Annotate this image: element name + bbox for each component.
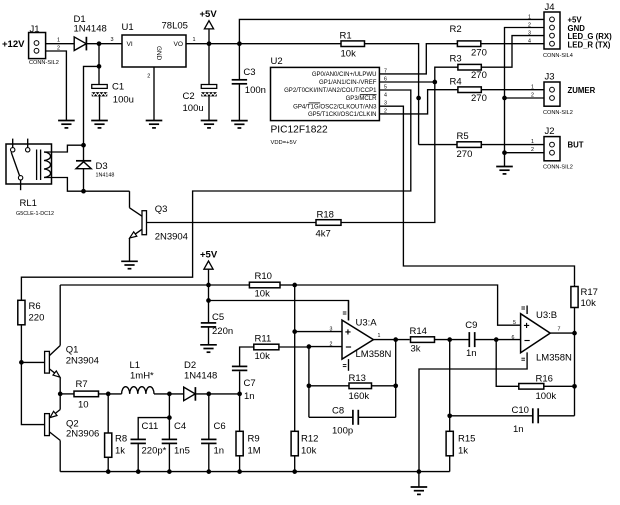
svg-text:3k: 3k — [411, 344, 421, 355]
wire output B down to R16 — [574, 333, 576, 416]
ground at C5 — [200, 344, 217, 346]
svg-text:10k: 10k — [255, 351, 271, 362]
svg-text:R3: R3 — [450, 54, 462, 65]
wire R13 right lead — [372, 385, 396, 387]
wire minus A to R13 — [308, 347, 310, 418]
node J3 pin2 on GND bus — [502, 96, 507, 101]
svg-text:R15: R15 — [458, 434, 475, 445]
svg-text:C9: C9 — [465, 320, 477, 331]
svg-text:C8: C8 — [332, 406, 344, 417]
svg-text:220: 220 — [29, 313, 45, 324]
node MCLR pin4 junction — [416, 96, 421, 101]
node minus input A junction — [307, 344, 312, 349]
wire GP1 pin6 stub — [379, 81, 434, 83]
svg-text:CONN-SIL2: CONN-SIL2 — [543, 165, 573, 171]
svg-text:−: − — [345, 341, 351, 353]
svg-text:C1: C1 — [112, 82, 124, 93]
ground at C1 — [91, 120, 108, 122]
power stub top U3:B — [526, 306, 528, 315]
wire +5V to C5 and opamp supply — [208, 285, 210, 323]
svg-text:1n: 1n — [466, 348, 477, 359]
svg-text:+5V: +5V — [200, 9, 218, 20]
wire R15 riser — [449, 340, 451, 432]
svg-text:C7: C7 — [244, 378, 256, 389]
svg-text:2N3906: 2N3906 — [66, 428, 99, 439]
power stub pin8 U3:A — [348, 301, 350, 321]
svg-text:R10: R10 — [255, 271, 272, 282]
svg-text:J1: J1 — [30, 24, 40, 35]
wire output A to R14 — [373, 339, 409, 341]
svg-text:RL1: RL1 — [20, 198, 37, 209]
svg-text:−: − — [524, 335, 530, 347]
wire bias rail to opamp B plus — [295, 285, 521, 325]
svg-text:3: 3 — [111, 37, 114, 43]
wire C11 to bottom rail — [137, 443, 139, 471]
svg-text:C5: C5 — [212, 312, 224, 323]
wire R3 to J4 pin3 — [481, 36, 544, 68]
svg-text:J2: J2 — [545, 126, 555, 137]
svg-text:10k: 10k — [581, 298, 597, 309]
svg-text:100u: 100u — [113, 95, 134, 106]
wire +5V arrow to rail — [208, 269, 210, 285]
wire C5 to ground — [208, 327, 210, 345]
svg-text:R1: R1 — [340, 31, 352, 42]
svg-text:10k: 10k — [301, 446, 317, 457]
svg-text:R8: R8 — [115, 434, 127, 445]
svg-text:GP1/AN1/CIN-/VREF: GP1/AN1/CIN-/VREF — [319, 80, 377, 86]
wire relay coil bottom — [44, 178, 84, 192]
wire U1 GND to ground — [153, 67, 155, 121]
node J4/C3 branch junction — [237, 41, 242, 46]
svg-text:GP3/MCLR: GP3/MCLR — [346, 96, 378, 102]
wire R8 to bottom rail — [107, 457, 109, 471]
node +5V junction — [206, 283, 211, 288]
wire R7 to L1 node — [99, 393, 122, 395]
svg-text:C6: C6 — [214, 421, 226, 432]
svg-text:U2: U2 — [271, 56, 283, 67]
svg-text:7: 7 — [558, 327, 561, 333]
wire R6 to base bus — [21, 325, 44, 425]
svg-text:LM358N: LM358N — [356, 349, 392, 360]
wire R4 to J3 pin1 — [481, 89, 544, 91]
svg-text:C4: C4 — [174, 421, 186, 432]
node relay/D3 bottom junction — [81, 189, 86, 194]
svg-text:D3: D3 — [96, 161, 108, 172]
wire R2 to J4 pin4 — [481, 43, 544, 45]
svg-text:GP5/T1CKI/OSC1/CLKIN: GP5/T1CKI/OSC1/CLKIN — [308, 112, 377, 118]
node C2 junction — [207, 41, 212, 46]
svg-text:R11: R11 — [255, 334, 272, 345]
wire GP4 pin3 to R17 top — [379, 106, 574, 284]
node Q1 base junction — [19, 360, 24, 365]
svg-text:1mH*: 1mH* — [130, 371, 154, 382]
wire GP5 pin2 to R4 — [379, 90, 458, 114]
wire node to C1 and relay branch — [98, 44, 100, 85]
wire R5 to J2 pin1 — [481, 144, 544, 146]
svg-text:1N4148: 1N4148 — [74, 24, 107, 35]
wire R18 to GP1 net — [341, 82, 435, 223]
power stub pin4 U3:B to ground — [521, 357, 525, 359]
node bias rail junction — [292, 283, 297, 288]
node L1/C4 junction — [167, 392, 172, 397]
ground at J1 pin2 — [58, 120, 75, 122]
wire R14 to C9 node — [435, 339, 470, 341]
svg-text:2: 2 — [147, 74, 150, 80]
wire R15 to bottom rail — [449, 456, 451, 472]
ground at C2 — [201, 120, 218, 122]
wire D2 cathode to C7 node — [195, 393, 239, 395]
wire R10 to bias node — [280, 284, 295, 286]
svg-text:GP2/T0CKI/INT/AN2/COUT/CCP1: GP2/T0CKI/INT/AN2/COUT/CCP1 — [284, 88, 377, 94]
svg-text:VDD=+5V: VDD=+5V — [271, 140, 297, 146]
svg-text:R4: R4 — [450, 77, 462, 88]
svg-text:100k: 100k — [536, 391, 557, 402]
svg-text:+5V: +5V — [200, 250, 218, 261]
wire minus B down to R16 — [496, 340, 519, 387]
svg-text:D2: D2 — [184, 360, 196, 371]
svg-text:C2: C2 — [183, 91, 195, 102]
svg-text:R14: R14 — [410, 326, 427, 337]
node GP1 junction — [432, 80, 437, 85]
bottom ground rail — [60, 471, 450, 473]
svg-text:160k: 160k — [349, 391, 370, 402]
svg-text:C10: C10 — [512, 405, 529, 416]
wire D3 bottom to Q3 collector — [84, 190, 130, 192]
svg-text:1: 1 — [57, 38, 60, 44]
svg-text:C11: C11 — [142, 421, 159, 432]
wire opamp supply rail — [209, 301, 349, 321]
svg-text:G5CLE-1-DC12: G5CLE-1-DC12 — [16, 211, 54, 217]
wire output B — [550, 332, 574, 334]
svg-text:R7: R7 — [76, 379, 88, 390]
svg-text:GP4/T1G/OSC2/CLKOUT/AN3: GP4/T1G/OSC2/CLKOUT/AN3 — [293, 104, 377, 110]
node J2 pin2 on GND bus — [502, 150, 507, 155]
wire C4 to bottom rail — [168, 443, 170, 471]
svg-text:1: 1 — [378, 333, 381, 339]
svg-text:U1: U1 — [122, 22, 134, 33]
svg-text:4: 4 — [528, 39, 531, 45]
svg-text:1k: 1k — [458, 446, 468, 457]
wire R11 to minus input A — [279, 346, 309, 348]
svg-text:10: 10 — [78, 400, 89, 411]
wire R17 riser — [574, 308, 576, 334]
wire C7 to R11 — [240, 347, 254, 366]
svg-text:R18: R18 — [317, 210, 334, 221]
node C6 junction — [206, 392, 211, 397]
wire +5V arrow to rail — [208, 29, 210, 44]
svg-text:100u: 100u — [183, 103, 204, 114]
node C7/R9 junction — [237, 392, 242, 397]
wire R1 to MCLR vertical — [365, 44, 419, 145]
svg-text:Q3: Q3 — [155, 204, 168, 215]
power stub pin4 U3:A — [348, 359, 350, 371]
wire J1 pin1 to D1 — [46, 43, 75, 45]
svg-text:BUT: BUT — [568, 141, 584, 150]
node C11 jog junction — [167, 415, 172, 420]
wire C3 to ground — [238, 84, 240, 121]
node relay/D3 top junction — [81, 143, 86, 148]
node C10 branch junction — [447, 413, 452, 418]
svg-text:R2: R2 — [450, 24, 462, 35]
wire C1 to ground — [99, 96, 101, 120]
svg-text:270: 270 — [471, 70, 487, 81]
op-amp U3:B — [521, 314, 551, 353]
svg-text:6: 6 — [512, 335, 515, 341]
wire R13 left lead — [309, 385, 349, 387]
svg-text:1n: 1n — [513, 424, 524, 435]
svg-text:LED_R (TX): LED_R (TX) — [568, 40, 611, 49]
svg-text:1: 1 — [531, 84, 534, 90]
wire GP2 pin5 to driver — [21, 90, 410, 300]
svg-text:1k: 1k — [115, 446, 125, 457]
svg-text:+12V: +12V — [2, 39, 25, 50]
svg-text:CONN-SIL4: CONN-SIL4 — [543, 53, 573, 59]
svg-text:4k7: 4k7 — [316, 229, 331, 240]
ground at bottom center — [411, 486, 428, 488]
wire R16 right lead — [544, 385, 575, 387]
svg-text:78L05: 78L05 — [162, 21, 188, 32]
wire plus input A stub — [295, 331, 342, 333]
wire Q2 emitter from node — [59, 394, 61, 410]
svg-text:1n: 1n — [244, 391, 255, 402]
wire J3 pin2 to GND bus — [505, 97, 545, 99]
wire C6 to bottom rail — [208, 443, 210, 471]
wire C10 left lead — [450, 415, 533, 417]
svg-text:2N3904: 2N3904 — [66, 356, 99, 367]
node minus input B junction — [494, 337, 499, 342]
wire J4 pin2 GND bus — [505, 28, 545, 167]
svg-text:R9: R9 — [248, 434, 260, 445]
svg-text:U3:A: U3:A — [356, 318, 378, 329]
svg-text:L1: L1 — [130, 360, 141, 371]
node R7/R8 junction — [106, 392, 111, 397]
wire C2 to ground — [208, 96, 210, 120]
wire +5V rail lower — [60, 284, 249, 286]
svg-text:1: 1 — [193, 37, 196, 43]
svg-text:+: + — [524, 320, 530, 332]
wire +5V to J4 pin1 — [239, 19, 544, 43]
svg-text:270: 270 — [471, 93, 487, 104]
svg-text:VO: VO — [173, 41, 183, 48]
wire branch to relay/D3 — [84, 66, 100, 145]
wire Q1 base — [21, 361, 44, 363]
wire C9 to minus input B — [475, 339, 521, 341]
svg-text:100n: 100n — [245, 85, 266, 96]
node R13 right junction — [393, 383, 398, 388]
svg-text:CONN-SIL2: CONN-SIL2 — [543, 110, 573, 116]
wire GP1 to R3 — [435, 67, 458, 82]
svg-text:+: + — [345, 327, 351, 339]
svg-text:270: 270 — [471, 48, 487, 59]
wire L1 to D2 — [154, 393, 184, 395]
svg-text:ZUMER: ZUMER — [568, 86, 596, 95]
node R16 right junction — [572, 384, 577, 389]
svg-text:1n5: 1n5 — [174, 446, 190, 457]
wire C4 riser — [168, 394, 170, 439]
svg-text:Q1: Q1 — [66, 345, 79, 356]
wire bias riser to plus input A — [294, 285, 296, 332]
node Q1/Q2 emitter junction — [58, 392, 63, 397]
svg-text:GND: GND — [155, 46, 162, 61]
ground at U1 — [146, 120, 163, 122]
node plus input A junction — [292, 329, 297, 334]
wire R9 top — [239, 394, 241, 431]
svg-text:1n: 1n — [214, 446, 225, 457]
wire D1 cathode to U1 VI — [86, 43, 122, 45]
wire J2 pin2 to GND bus — [505, 152, 545, 154]
node R14/R15/C9 junction — [447, 337, 452, 342]
svg-text:220p*: 220p* — [142, 446, 167, 457]
wire Q1 collector to +5V rail — [59, 285, 61, 346]
wire R8 top — [107, 394, 109, 433]
svg-text:5: 5 — [513, 320, 516, 326]
wire C6 riser — [208, 394, 210, 439]
node opamp supply branch — [206, 298, 211, 303]
wire C11 jog — [138, 418, 169, 440]
svg-text:1N4148: 1N4148 — [96, 172, 115, 178]
svg-text:1: 1 — [528, 14, 531, 20]
node raw +12V junction — [97, 41, 102, 46]
svg-text:C3: C3 — [243, 67, 255, 78]
svg-text:270: 270 — [457, 149, 473, 160]
svg-text:R6: R6 — [29, 301, 41, 312]
wire +5V rail from U1 VO — [186, 43, 341, 45]
svg-text:4: 4 — [384, 92, 387, 98]
svg-text:VI: VI — [127, 41, 133, 48]
svg-text:GP0/AN0/CIN+/ULPWU: GP0/AN0/CIN+/ULPWU — [312, 72, 377, 78]
svg-text:J3: J3 — [545, 72, 555, 83]
node R13 left junction — [307, 383, 312, 388]
wire minus input A stub — [309, 346, 342, 348]
wire relay coil top to +12V — [44, 145, 84, 152]
svg-text:LM358N: LM358N — [536, 353, 572, 364]
wire R9 to bottom rail — [239, 456, 241, 472]
wire GP0 pin7 to R2 — [379, 44, 457, 74]
svg-text:10k: 10k — [255, 289, 271, 300]
ground at C3 — [231, 120, 248, 122]
wire Q1 emitter to R7 node — [59, 377, 61, 394]
wire J1 pin2 to ground — [46, 51, 67, 121]
wire C10 right lead — [538, 415, 574, 417]
node output A junction — [393, 337, 398, 342]
wire MCLR net to R5 — [419, 144, 457, 146]
svg-text:1M: 1M — [248, 446, 261, 457]
svg-text:100p: 100p — [332, 426, 353, 437]
node output B junction — [572, 331, 577, 336]
wire output A riser — [395, 340, 397, 418]
svg-text:2N3904: 2N3904 — [155, 232, 188, 243]
svg-text:R17: R17 — [581, 287, 598, 298]
wire Q2 collector to bottom rail — [59, 440, 61, 471]
svg-text:U3:B: U3:B — [536, 310, 557, 321]
svg-text:3: 3 — [330, 327, 333, 333]
svg-text:3: 3 — [528, 31, 531, 37]
svg-text:R12: R12 — [301, 434, 318, 445]
svg-text:1: 1 — [531, 139, 534, 145]
wire R12 to bottom rail — [294, 456, 296, 472]
ground at Q3 emitter — [121, 260, 138, 262]
ground at GND bus — [496, 166, 513, 168]
wire R12 riser — [294, 332, 296, 432]
svg-text:PIC12F1822: PIC12F1822 — [271, 124, 329, 135]
svg-text:10k: 10k — [341, 49, 357, 60]
svg-text:CONN-SIL2: CONN-SIL2 — [29, 60, 59, 66]
svg-text:1N4148: 1N4148 — [184, 371, 217, 382]
op-amp U3:A — [342, 320, 373, 359]
svg-text:R5: R5 — [457, 131, 469, 142]
